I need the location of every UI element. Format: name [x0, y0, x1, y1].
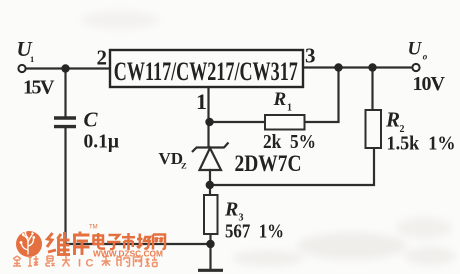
svg-text:1: 1: [30, 54, 34, 64]
svg-text:CW117/CW217/CW317: CW117/CW217/CW317: [114, 57, 298, 86]
svg-text:0.1μ: 0.1μ: [84, 131, 120, 153]
svg-text:1.5k 1%: 1.5k 1%: [387, 133, 456, 155]
svg-text:C: C: [84, 107, 99, 131]
svg-text:U: U: [408, 38, 423, 59]
svg-text:TM: TM: [89, 225, 98, 231]
svg-text:2k 5%: 2k 5%: [263, 131, 316, 153]
svg-text:10V: 10V: [413, 73, 446, 95]
svg-text:C: C: [86, 258, 94, 270]
svg-text:2: 2: [97, 46, 108, 70]
svg-text:567 1%: 567 1%: [225, 221, 284, 243]
svg-text:R: R: [224, 199, 238, 221]
svg-text:VD: VD: [159, 149, 184, 168]
svg-text:2DW7C: 2DW7C: [235, 151, 302, 176]
svg-text:3: 3: [305, 44, 316, 68]
svg-text:o: o: [423, 51, 428, 61]
svg-text:R: R: [273, 89, 287, 110]
svg-text:15V: 15V: [23, 77, 55, 99]
svg-text:1: 1: [287, 103, 292, 114]
svg-text:1: 1: [196, 89, 207, 114]
svg-text:Z: Z: [181, 161, 187, 171]
svg-text:I: I: [78, 258, 81, 270]
svg-text:R: R: [385, 108, 400, 132]
